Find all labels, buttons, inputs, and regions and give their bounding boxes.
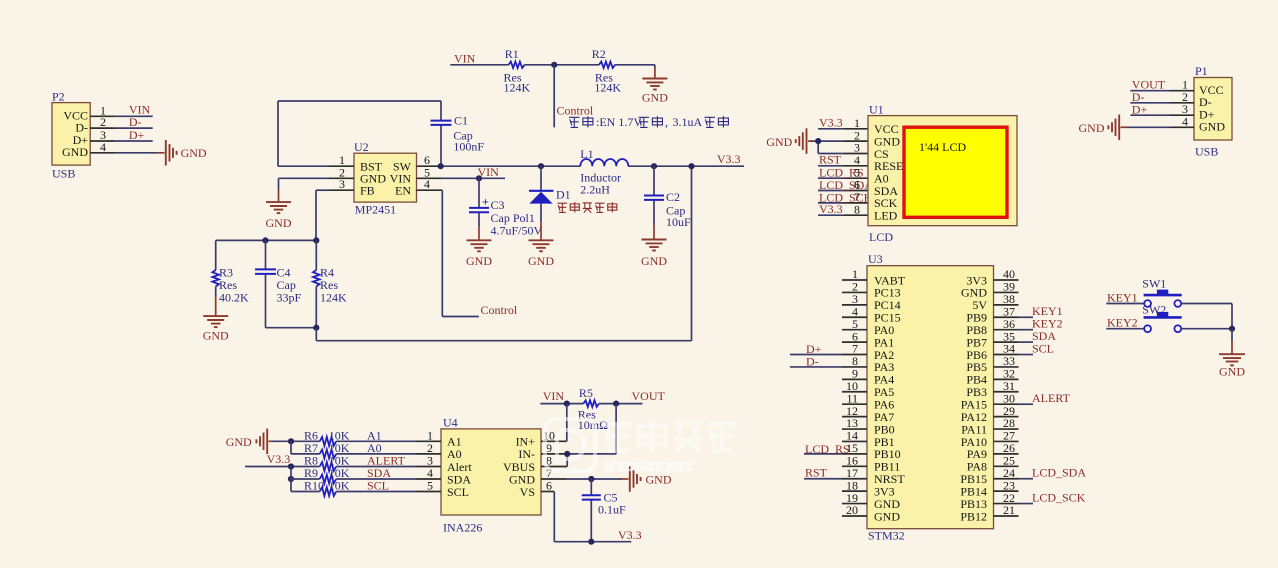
svg-text:KEY2: KEY2 [1107, 316, 1138, 330]
svg-text:P2: P2 [52, 90, 65, 104]
wire R7 to U4 pin 2 [336, 453, 441, 455]
pin number 1 [100, 103, 106, 117]
svg-text:GND: GND [766, 135, 792, 149]
svg-text:SCL: SCL [447, 485, 469, 499]
svg-text:VIN: VIN [454, 52, 476, 66]
svg-text:20: 20 [846, 503, 858, 517]
diode D1 freewheel [529, 166, 571, 240]
wire U1 pin1 V3.3 [818, 128, 868, 130]
net label ALERT [1032, 391, 1071, 405]
resistor R6 10K [304, 429, 350, 446]
svg-text:MP2451: MP2451 [355, 202, 396, 216]
net label D- [129, 115, 142, 129]
pin stubs U3 left [842, 280, 867, 516]
resistor R8 10K [304, 454, 350, 471]
junction D1 top [538, 163, 544, 169]
net label SCL [367, 479, 389, 493]
junction VOUT sense [613, 401, 619, 407]
junction VBUS IN- [564, 451, 570, 457]
wire SW2 to common [1181, 328, 1232, 330]
svg-text:SCL: SCL [1032, 341, 1054, 355]
resistor R2 [592, 47, 622, 95]
svg-text:5: 5 [427, 479, 433, 493]
svg-text:GND: GND [1079, 121, 1105, 135]
svg-text:33pF: 33pF [277, 290, 302, 304]
svg-text:124K: 124K [594, 81, 621, 95]
wire KEY1 to SW1 [1106, 303, 1144, 305]
svg-text:SCL: SCL [367, 479, 389, 493]
wire D- to U3 pin8 [790, 366, 842, 368]
connector P1 (USB) [1194, 64, 1232, 159]
wire P2 pin4 GND [90, 152, 164, 154]
wire U1 pin4 RST [818, 165, 868, 167]
wire R8 to U4 pin 3 [336, 466, 441, 468]
wire ALERT from U3 pin 30 [1019, 403, 1034, 405]
svg-text:GND: GND [874, 509, 900, 523]
wire Control from R1-R2 node [553, 65, 555, 128]
net label V3.3 [819, 202, 843, 216]
svg-text:MYDIGIT.NET: MYDIGIT.NET [604, 460, 693, 474]
svg-text:GND: GND [641, 254, 667, 268]
junction V3.3 R8 [288, 463, 294, 469]
svg-text:V3.3: V3.3 [717, 152, 741, 166]
wire U1 GND pins 2,3 [808, 141, 868, 153]
wire R9 to U4 pin 4 [336, 478, 441, 480]
pin number 4 [1182, 114, 1188, 128]
wire R10 to U4 pin 5 [336, 491, 441, 493]
wire U1 pin6 [818, 190, 868, 192]
svg-text:VIN: VIN [543, 389, 565, 403]
resistor R9 10K [304, 466, 350, 483]
svg-text:GND: GND [181, 146, 207, 160]
svg-text:6: 6 [546, 479, 552, 493]
pin number 4 [100, 140, 106, 154]
svg-text:2: 2 [100, 115, 106, 129]
net label VIN [543, 389, 565, 403]
svg-text:R1: R1 [505, 47, 519, 61]
pin number 2 [339, 165, 345, 179]
svg-text:V3.3: V3.3 [819, 116, 843, 130]
pin number 2 [1182, 90, 1188, 104]
svg-text:STM32: STM32 [868, 529, 905, 543]
svg-text:INA226: INA226 [443, 521, 482, 535]
net label VOUT [632, 389, 666, 403]
wire VS to V3.3 [541, 492, 631, 542]
capacitor C4 [255, 240, 302, 327]
net label SDA [367, 466, 391, 480]
net label V3.3 [717, 152, 741, 166]
wire P1 pin3 D+ [1130, 114, 1194, 116]
op-amp U2 MP2451 regulator [354, 140, 417, 216]
net label LCD_SCK [819, 190, 873, 204]
ground [1079, 115, 1120, 141]
svg-text:124K: 124K [320, 290, 347, 304]
wire U1 pin7 [818, 202, 868, 204]
wire P2 pin3 D+ [90, 140, 153, 142]
junction C4 top [262, 237, 268, 243]
svg-text:U4: U4 [443, 416, 458, 430]
svg-text:100nF: 100nF [453, 139, 484, 153]
note text EN threshold [569, 115, 728, 129]
net label SDA [1032, 329, 1056, 343]
svg-text:C1: C1 [454, 114, 468, 128]
wire RST to U3 pin17 [804, 478, 842, 480]
pin numbers U1 [854, 116, 860, 216]
wire VIN row [540, 403, 583, 405]
svg-text:GND: GND [642, 91, 668, 105]
capacitor C5 [582, 479, 626, 542]
svg-text:GND: GND [203, 328, 229, 342]
svg-text:USB: USB [1195, 145, 1218, 159]
junction R6/R7 feed [288, 438, 294, 444]
wire LCD_RS to U3 pin15 [804, 453, 842, 455]
svg-text:V3.3: V3.3 [819, 202, 843, 216]
wire BST bootstrap loop [278, 101, 441, 166]
watermark [545, 419, 736, 474]
ground [166, 140, 207, 166]
svg-text:D-: D- [75, 120, 88, 134]
wire C1 to SW node [440, 126, 442, 167]
resistor R4 [313, 240, 347, 327]
wire ground to R6 [269, 440, 320, 442]
wire LCD_SCK from U3 pin 22 [1019, 503, 1034, 505]
svg-text:GND: GND [62, 145, 88, 159]
op-amp U1 LCD module [868, 103, 1017, 245]
net label LCD_SCK [1032, 490, 1086, 504]
svg-text:R2: R2 [592, 47, 606, 61]
ground [1219, 354, 1245, 378]
capacitor C1 [431, 114, 485, 154]
junction C3 top [476, 175, 482, 181]
wire common to ground [1231, 329, 1233, 354]
svg-text:40.2K: 40.2K [219, 290, 249, 304]
wire feedback return to V3.3 rail [316, 166, 691, 341]
svg-text:D-: D- [806, 354, 819, 368]
pin number 1 [339, 153, 345, 167]
pin number 6 [424, 153, 430, 167]
wire divider top rail [216, 239, 317, 241]
svg-text:PB12: PB12 [960, 509, 987, 523]
pin number 5 [424, 165, 430, 179]
wire R5 to VOUT [599, 403, 643, 405]
svg-text:D+: D+ [129, 128, 145, 142]
wire SDA from U3 pin 35 [1019, 341, 1034, 343]
svg-text:GND: GND [1219, 364, 1245, 378]
svg-text::EN 1.7V: :EN 1.7V [596, 115, 642, 129]
resistor R7 10K [304, 441, 350, 458]
junction R4 top [313, 237, 319, 243]
net label VIN [478, 165, 500, 179]
wire SW node row [417, 165, 745, 167]
resistor R1 [504, 47, 531, 95]
inductor L1 [580, 147, 628, 196]
svg-text:RST: RST [805, 466, 828, 480]
junction Control node [551, 62, 557, 68]
svg-text:GND: GND [646, 473, 672, 487]
pin numbers U3 right [1003, 267, 1015, 517]
wire P1 pin4 GND [1121, 126, 1195, 128]
pin number 3 [100, 128, 106, 142]
svg-text:FB: FB [360, 183, 375, 197]
svg-text:D+: D+ [1132, 102, 1148, 116]
pin number 3 [339, 177, 345, 191]
wire VBUS to IN- [541, 454, 567, 467]
svg-text:V3.3: V3.3 [618, 528, 642, 542]
net label VOUT [1132, 78, 1166, 92]
svg-text:124K: 124K [504, 81, 531, 95]
net label D- [806, 354, 819, 368]
svg-text:L1: L1 [580, 147, 593, 161]
resistor R10 10K [304, 479, 350, 496]
junction VIN sense [564, 401, 570, 407]
ground [642, 79, 668, 105]
svg-text:GND: GND [1199, 120, 1225, 134]
svg-text:R5: R5 [579, 386, 593, 400]
svg-text:4: 4 [424, 177, 430, 191]
svg-text:ALERT: ALERT [1032, 391, 1071, 405]
pin stubs U3 right [994, 280, 1019, 516]
svg-text:LCD: LCD [869, 230, 893, 244]
svg-text:U1: U1 [869, 103, 884, 117]
switch SW2 [1142, 303, 1181, 333]
svg-text:GND: GND [266, 216, 292, 230]
svg-text:4.7uF/50V: 4.7uF/50V [491, 223, 543, 237]
svg-text:4: 4 [1182, 114, 1188, 128]
svg-text:GND: GND [528, 254, 554, 268]
svg-text:USB: USB [52, 167, 75, 181]
svg-text:1'44 LCD: 1'44 LCD [919, 140, 966, 154]
svg-text:3.1uA: 3.1uA [673, 115, 703, 129]
wire VIN to R1 [450, 64, 508, 66]
svg-text:VIN: VIN [478, 165, 500, 179]
net label SCL [1032, 341, 1054, 355]
net label V3.3 [267, 452, 291, 466]
net label V3.3 [819, 116, 843, 130]
wire LCD_SDA from U3 pin 24 [1019, 478, 1034, 480]
pin number 2 [100, 115, 106, 129]
wire D+ to U3 pin7 [790, 354, 842, 356]
wire U1 pin8 [818, 214, 868, 216]
svg-text:LCD_SCK: LCD_SCK [1032, 490, 1086, 504]
svg-text:P1: P1 [1195, 64, 1208, 78]
svg-text:GND: GND [226, 435, 252, 449]
wire U2 pin5 VIN [417, 177, 506, 179]
wire KEY1 from U3 pin 37 [1019, 316, 1034, 318]
wire R2 to ground [615, 65, 655, 79]
junction C5 bottom [588, 539, 594, 545]
svg-text:10K: 10K [329, 479, 350, 493]
wire C4 bottom to R4 bottom [266, 327, 317, 329]
net label D+ [806, 342, 822, 356]
wire to R9 and R10 [291, 467, 320, 492]
junction FB return [688, 163, 694, 169]
svg-text:LCD_SDA: LCD_SDA [1032, 466, 1086, 480]
connector P2 (USB) [52, 90, 90, 181]
net label KEY1 [1032, 304, 1063, 318]
svg-text:Control: Control [481, 303, 518, 317]
net label LCD_SDA [819, 178, 873, 192]
net label Control [481, 303, 518, 317]
ground [766, 128, 806, 154]
junction C5 top [588, 476, 594, 482]
svg-text:+: + [482, 195, 489, 209]
net label KEY2 [1107, 316, 1138, 330]
junction C2 top [651, 163, 657, 169]
wire U1 pin5 [818, 177, 868, 179]
pin number 1 [1182, 78, 1188, 92]
svg-text:SW1: SW1 [1142, 277, 1166, 291]
net label Control [557, 104, 594, 118]
svg-text:0.1uF: 0.1uF [598, 503, 626, 517]
pin number 3 [1182, 102, 1188, 116]
ground [630, 466, 672, 492]
svg-text:,: , [665, 115, 668, 129]
ground [226, 429, 268, 455]
wire IN- to VOUT [541, 404, 616, 454]
junction U1 ground [815, 138, 821, 144]
net label A1 [367, 429, 382, 443]
ground [266, 202, 292, 230]
svg-text:KEY1: KEY1 [1107, 291, 1138, 305]
resistor R5 shunt [578, 386, 608, 432]
ground [466, 240, 492, 267]
wire P2 pin1 VCC [90, 115, 153, 117]
capacitor C2 [644, 166, 691, 239]
pin numbers U4 right [543, 428, 555, 492]
svg-text:C3: C3 [491, 198, 505, 212]
svg-text:V3.3: V3.3 [267, 452, 291, 466]
ground [528, 240, 554, 267]
wire R6 to U4 pin 1 [336, 440, 441, 442]
value label zener note [558, 202, 617, 212]
wire R1 to R2 [525, 64, 600, 66]
wire SCL from U3 pin 34 [1019, 354, 1034, 356]
pin numbers U4 left [427, 428, 433, 492]
svg-text:Control: Control [557, 104, 594, 118]
wire to R7 [291, 441, 320, 454]
junction switch common [1229, 326, 1235, 332]
pin numbers U3 left [846, 267, 858, 517]
op-amp U3 STM32 microcontroller [867, 252, 994, 543]
junction divider bottom [313, 325, 319, 331]
net label D+ [1132, 102, 1148, 116]
wire SW1 to common [1181, 304, 1232, 329]
net label V3.3 [618, 528, 642, 542]
svg-text:2.2uH: 2.2uH [580, 183, 610, 197]
svg-text:U3: U3 [868, 252, 883, 266]
svg-text:U2: U2 [354, 140, 369, 154]
net label KEY2 [1032, 316, 1063, 330]
switch SW1 [1142, 277, 1181, 307]
wire FB to divider [316, 190, 354, 240]
svg-text:R10: R10 [304, 479, 324, 493]
op-amp U4 INA226 current monitor [441, 416, 541, 535]
wire P1 pin2 D- [1130, 102, 1194, 104]
ground [203, 316, 229, 342]
svg-text:C2: C2 [666, 190, 680, 204]
wire P1 pin1 VOUT [1130, 90, 1194, 92]
net label VIN [129, 103, 151, 117]
junction V3.3 R9 [288, 476, 294, 482]
svg-text:VOUT: VOUT [632, 389, 666, 403]
ground [641, 240, 667, 268]
svg-text:4: 4 [100, 140, 106, 154]
wire V3.3 to R8 [245, 466, 320, 468]
net label D+ [129, 128, 145, 142]
svg-text:3: 3 [339, 177, 345, 191]
svg-text:LED: LED [874, 209, 898, 223]
net label LCD_RS [819, 166, 864, 180]
net label RST [805, 466, 828, 480]
svg-text:EN: EN [395, 183, 411, 197]
net label LCD_SDA [1032, 466, 1086, 480]
net label RST [819, 153, 842, 167]
net label KEY1 [1107, 291, 1138, 305]
svg-text:LCD_RS: LCD_RS [805, 442, 850, 456]
svg-text:10uF: 10uF [666, 215, 691, 229]
wire U2 pin2 to ground [279, 178, 355, 202]
pin number 4 [424, 177, 430, 191]
net label D- [1132, 90, 1145, 104]
svg-text:8: 8 [854, 202, 860, 216]
svg-text:21: 21 [1003, 503, 1015, 517]
wire P2 pin2 D- [90, 127, 153, 129]
wire EN to Control [417, 190, 479, 316]
wire KEY2 from U3 pin 36 [1019, 329, 1034, 331]
svg-text:GND: GND [466, 254, 492, 268]
wire IN+ to VIN [541, 404, 567, 442]
resistor R3 [212, 240, 249, 316]
svg-text:RST: RST [819, 153, 842, 167]
net label ALERT [367, 454, 406, 468]
capacitor C3 polarized [469, 178, 543, 240]
wire U4 GND pin7 [541, 478, 629, 480]
LCD screen [904, 127, 1007, 217]
wire KEY2 to SW2 [1106, 328, 1144, 330]
net label LCD_RS [805, 442, 850, 456]
junction SW at C1 [438, 163, 444, 169]
svg-text:VS: VS [520, 485, 535, 499]
net label VIN [454, 52, 476, 66]
net label A0 [367, 441, 382, 455]
svg-text:D1: D1 [556, 187, 571, 201]
